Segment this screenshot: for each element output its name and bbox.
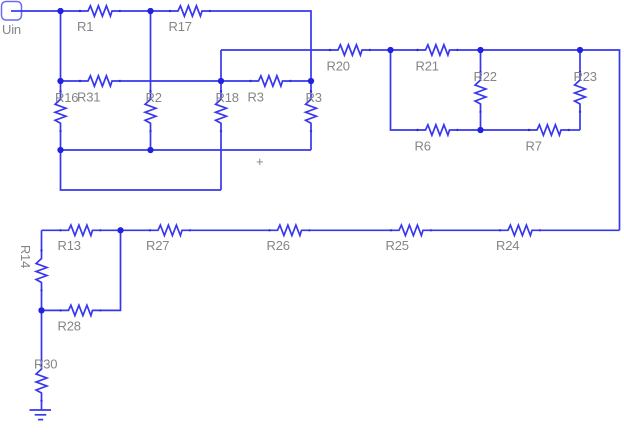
- wire: [220, 131, 222, 190]
- wire: [41, 310, 43, 361]
- wire: [310, 81, 312, 91]
- wire: [60, 131, 62, 150]
- wire: [101, 230, 121, 310]
- svg-text:R14: R14: [18, 245, 33, 268]
- wire: [458, 49, 481, 51]
- svg-text:R13: R13: [58, 238, 81, 253]
- node A: [57, 8, 63, 14]
- resistor R2: [145, 90, 162, 132]
- svg-text:R28: R28: [58, 318, 81, 333]
- node G: [477, 47, 483, 53]
- wire: [61, 10, 81, 12]
- svg-text:R26: R26: [267, 238, 290, 253]
- svg-text:R16: R16: [55, 90, 78, 105]
- wire: [22, 10, 61, 12]
- wire: [60, 11, 62, 81]
- wire: [391, 50, 418, 130]
- wire: [540, 229, 620, 231]
- svg-text:R18: R18: [216, 90, 239, 105]
- wire: [458, 129, 481, 131]
- wire: [120, 80, 221, 82]
- node F: [387, 47, 393, 53]
- resistor R28: [58, 305, 102, 333]
- svg-text:R1: R1: [77, 19, 93, 34]
- wire: [569, 129, 580, 131]
- svg-text:R23: R23: [574, 69, 597, 84]
- resistor R17: [169, 6, 212, 34]
- node C: [57, 78, 63, 84]
- node E: [308, 78, 314, 84]
- wire: [221, 49, 330, 51]
- resistor R20: [327, 45, 372, 74]
- resistor R22: [474, 69, 497, 113]
- svg-text:R3: R3: [306, 90, 322, 105]
- resistor R27: [146, 225, 191, 253]
- wire: [150, 131, 152, 150]
- svg-text:R21: R21: [416, 58, 439, 73]
- svg-text:+: +: [256, 154, 263, 169]
- wire: [151, 149, 312, 151]
- resistor R3b: [306, 90, 322, 132]
- resistor R31: [77, 76, 121, 105]
- wire: [151, 10, 171, 12]
- wire: [220, 50, 222, 81]
- wire: [41, 401, 43, 410]
- resistor R16: [55, 90, 78, 132]
- wire: [210, 11, 311, 81]
- resistor R3a: [248, 76, 292, 105]
- resistor R24: [496, 225, 541, 253]
- wire: [431, 229, 500, 231]
- node I: [477, 127, 483, 133]
- node H: [577, 47, 583, 53]
- wire: [370, 49, 391, 51]
- voltage source Uin: [2, 2, 23, 38]
- wire: [481, 49, 581, 51]
- svg-text:R17: R17: [169, 19, 192, 34]
- resistor R21: [416, 45, 459, 74]
- wire: [61, 150, 222, 190]
- wire: [101, 229, 121, 231]
- wire: [150, 11, 152, 91]
- resistor R23: [574, 69, 597, 113]
- svg-text:R6: R6: [415, 139, 431, 154]
- wire: [61, 80, 81, 82]
- resistor R7: [526, 125, 571, 154]
- node K: [147, 147, 153, 153]
- svg-text:R31: R31: [77, 90, 100, 105]
- wire: [120, 10, 151, 12]
- wire: [190, 229, 270, 231]
- node D: [218, 78, 224, 84]
- wire: [60, 81, 62, 91]
- wire: [42, 229, 61, 231]
- wire: [42, 309, 61, 311]
- resistor R13: [58, 225, 102, 253]
- svg-text:R30: R30: [34, 357, 57, 372]
- resistor R14: [18, 245, 47, 292]
- svg-text:R25: R25: [386, 238, 409, 253]
- svg-text:Uin: Uin: [2, 22, 21, 37]
- svg-text:R3: R3: [248, 90, 264, 105]
- wire: [480, 112, 482, 130]
- resistor R30: [34, 357, 57, 403]
- svg-text:R7: R7: [526, 139, 542, 154]
- resistor R25: [386, 225, 433, 253]
- resistor R1: [77, 6, 121, 34]
- wire: [391, 49, 418, 51]
- wire: [579, 50, 581, 72]
- svg-text:R27: R27: [146, 238, 169, 253]
- svg-text:R2: R2: [146, 90, 162, 105]
- svg-text:R22: R22: [474, 69, 497, 84]
- resistor R6: [415, 125, 459, 154]
- wire: [41, 291, 43, 311]
- node B: [147, 8, 153, 14]
- ground: [30, 410, 52, 420]
- wire: [310, 229, 392, 231]
- wire: [121, 229, 151, 231]
- wire: [480, 50, 482, 72]
- resistor R26: [267, 225, 311, 253]
- svg-text:R20: R20: [327, 58, 350, 73]
- wire: [579, 112, 581, 130]
- wire: [580, 50, 620, 230]
- resistor R18: [216, 90, 239, 132]
- wire: [41, 230, 43, 250]
- wire: [61, 149, 151, 151]
- node L: [117, 227, 123, 233]
- wire: [221, 80, 251, 82]
- wire: [220, 81, 222, 91]
- wire: [481, 129, 530, 131]
- node J: [57, 147, 63, 153]
- svg-text:R24: R24: [496, 238, 519, 253]
- wire: [310, 131, 312, 150]
- node M: [38, 307, 44, 313]
- wire: [291, 80, 312, 82]
